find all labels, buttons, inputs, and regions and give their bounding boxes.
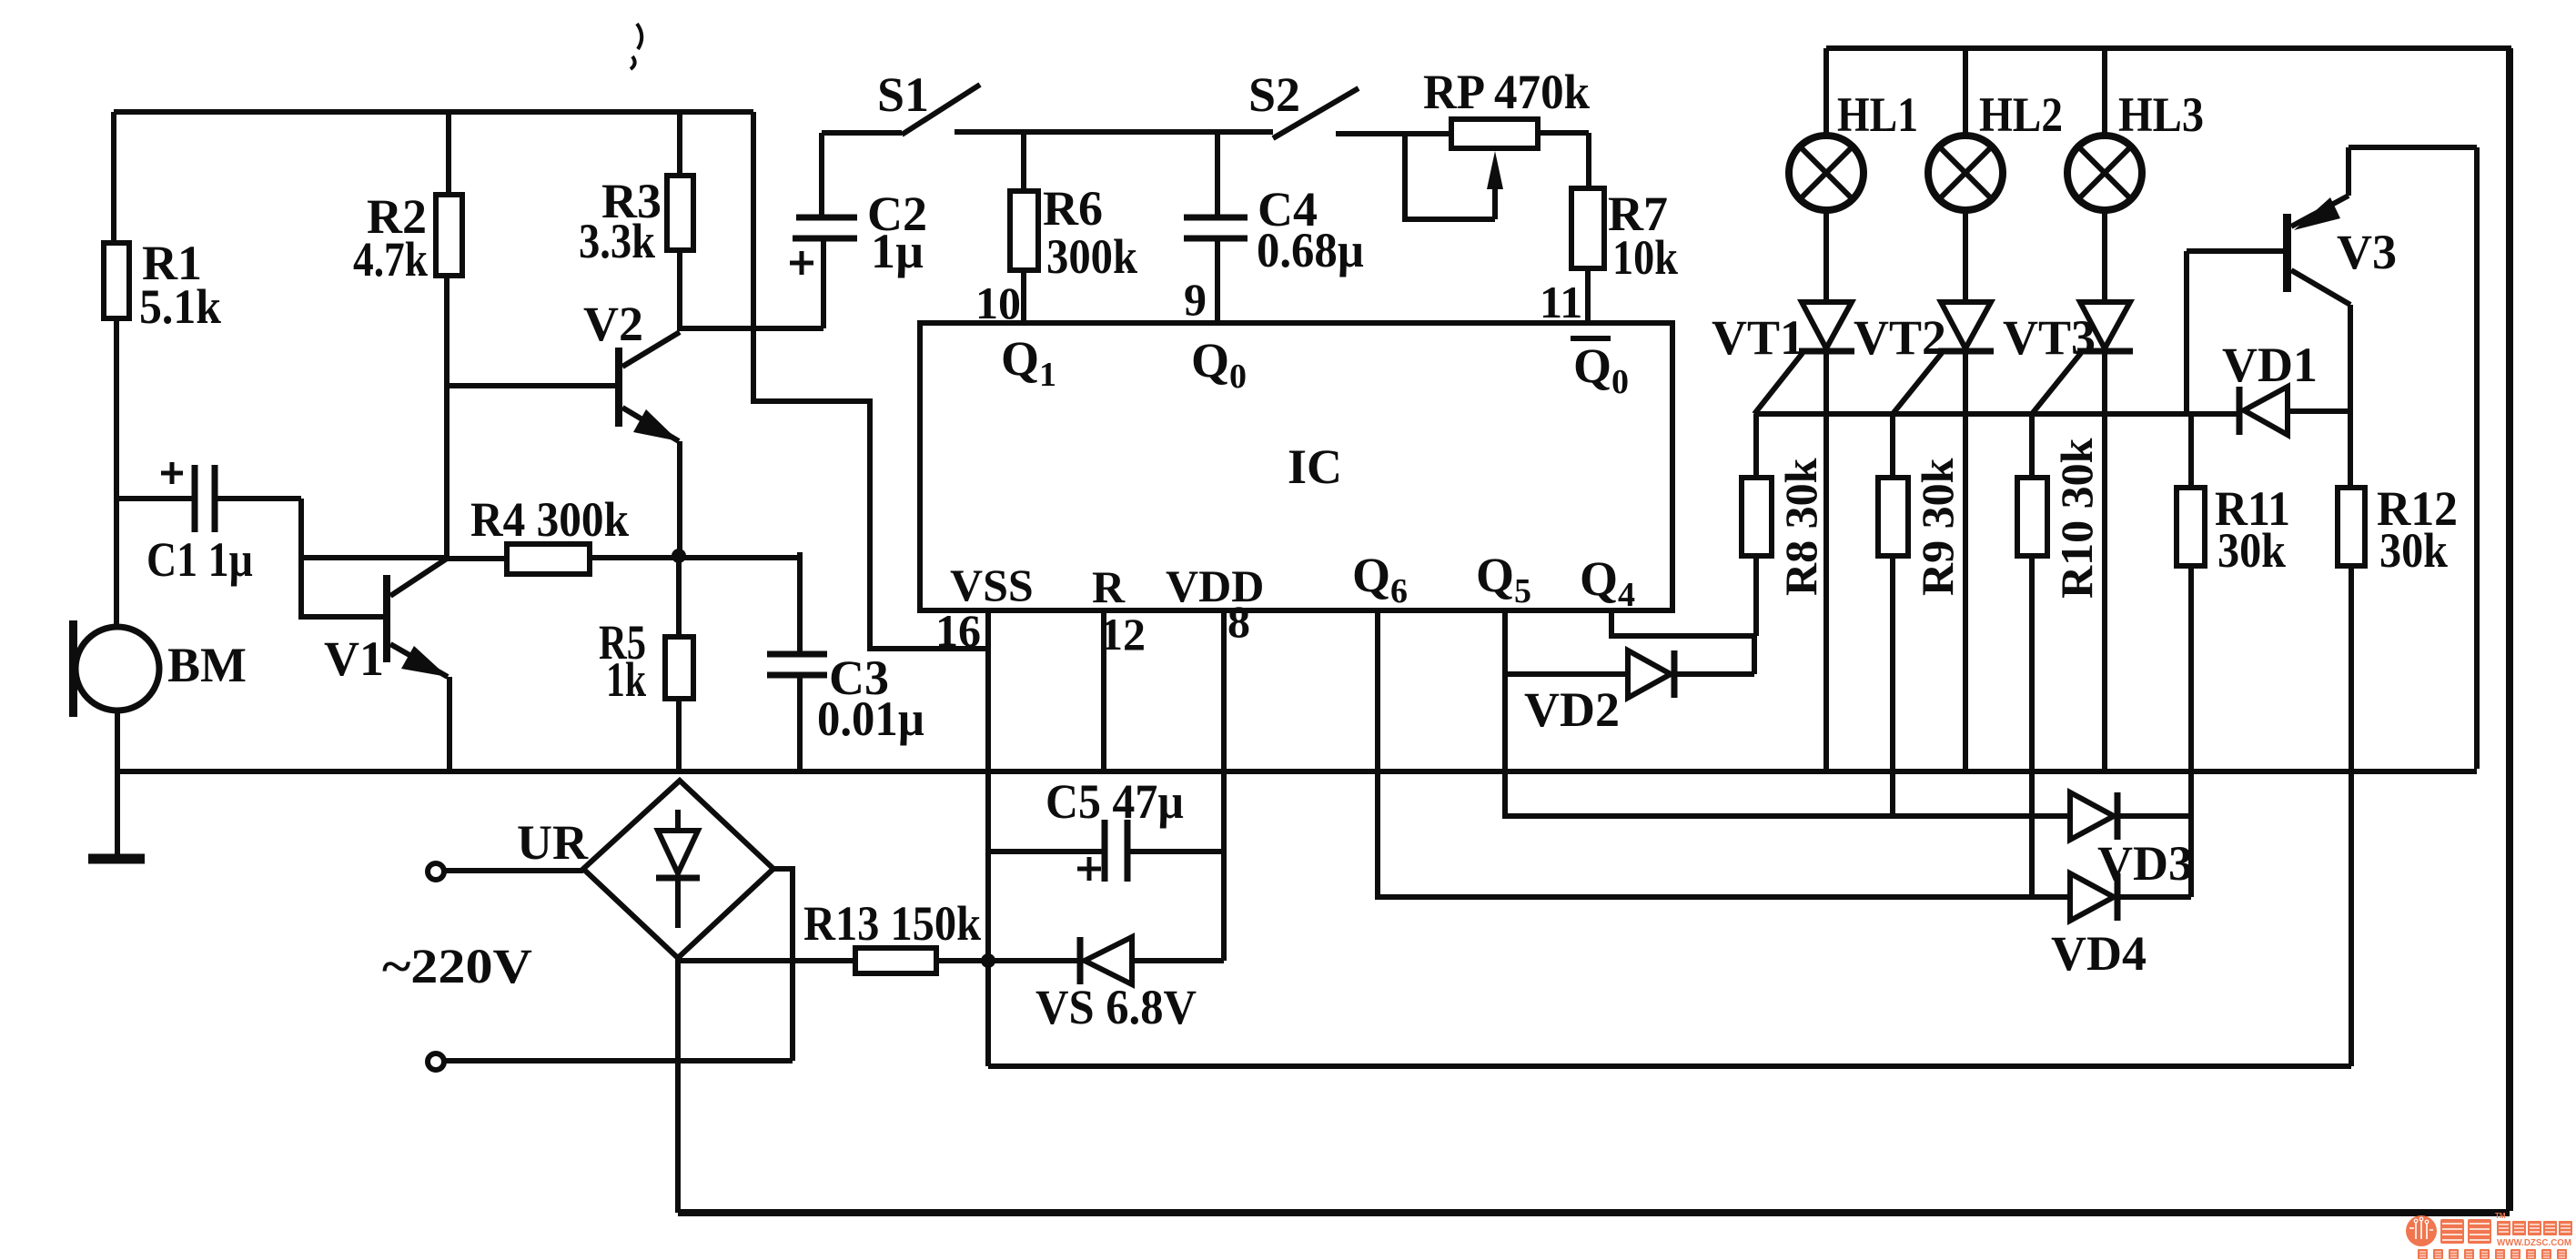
transistor V3 [2283,214,2291,292]
zener diode VS [1077,937,1084,984]
resistor R2 [446,112,451,195]
svg-text:R9 30k: R9 30k [1912,458,1963,596]
lamp HL3 [2102,48,2107,136]
diode VD3 [2070,792,2114,840]
wire VSS pin 16 [985,610,991,961]
svg-text:S1: S1 [877,67,929,122]
svg-text:VT1: VT1 [1712,310,1804,365]
switch S1 [822,130,902,136]
thyristor VT1 [1802,302,1852,348]
svg-text:VD2: VD2 [1524,682,1620,737]
watermark logo [2406,1212,2572,1259]
svg-text:R10 30k: R10 30k [2051,438,2102,599]
wire right border [2506,48,2513,1211]
svg-text:R: R [1092,561,1126,612]
diode VD1 [2244,387,2288,435]
svg-text:VT3: VT3 [2003,310,2096,365]
wire bottom rail [678,1209,2510,1216]
resistor R10 [2029,414,2035,478]
svg-text:R4 300k: R4 300k [470,492,629,547]
capacitor C5 [988,849,1105,854]
svg-text:V2: V2 [583,297,643,351]
resistor R9 [1890,414,1895,478]
wire top bus to VSS pin [753,112,988,649]
resistor R7 [1586,133,1591,188]
resistor R11 [2188,414,2194,488]
svg-text:RP 470k: RP 470k [1423,65,1590,119]
scan mark [631,24,641,69]
resistor R12 [2348,305,2353,488]
svg-text:R13 150k: R13 150k [803,896,981,951]
svg-text:IC: IC [1288,439,1342,494]
wire top right bus [1826,45,2511,51]
svg-text:UR: UR [517,815,589,870]
svg-text:S2: S2 [1248,67,1300,122]
wire top-left supply bus [114,109,753,115]
svg-text:10: 10 [975,277,1021,328]
microphone BM [76,627,159,711]
resistor R1 [111,112,116,243]
svg-text:1µ: 1µ [871,224,924,278]
svg-text:C5 47µ: C5 47µ [1046,774,1184,829]
bridge rectifier UR [583,781,773,958]
svg-text:VS 6.8V: VS 6.8V [1035,980,1197,1034]
svg-text:R8 30k: R8 30k [1775,458,1826,596]
wire gate line [1754,411,2239,417]
svg-text:3.3k: 3.3k [579,214,655,268]
svg-text:11: 11 [1540,277,1582,328]
svg-text:0.01µ: 0.01µ [817,691,924,746]
svg-text:HL1: HL1 [1837,87,1918,142]
svg-text:12: 12 [1100,609,1146,660]
ground [88,854,145,864]
svg-text:HL2: HL2 [1979,87,2063,142]
capacitor C1 [116,496,195,501]
resistor R13 [678,958,855,963]
svg-text:10k: 10k [1612,230,1678,285]
node VSS/R13/VS junction [981,953,995,968]
svg-text:VD4: VD4 [2051,926,2147,981]
wire BM to ground [115,711,120,856]
svg-text:TM: TM [2495,1212,2506,1220]
IC U1 box [920,323,1672,610]
terminal AC2 [428,1053,444,1070]
diode VD4 [2070,873,2114,921]
svg-text:30k: 30k [2379,523,2448,578]
svg-text:BM: BM [167,638,247,692]
svg-text:0.68µ: 0.68µ [1257,223,1364,277]
resistor R5 [676,556,682,637]
capacitor C4 [1215,132,1220,217]
wire V2 collector to C2 [677,326,823,331]
diode VD2 [1505,671,1628,677]
svg-text:VD3: VD3 [2097,836,2193,891]
resistor R4 [447,556,507,561]
svg-text:1k: 1k [606,652,646,707]
wire ground bus [116,769,2477,774]
svg-text:VSS: VSS [950,559,1034,610]
svg-text:4.7k: 4.7k [353,232,428,287]
terminal AC1 [428,863,444,880]
wire C1 to V1 base [301,499,447,617]
wire Q6 line [1378,610,2070,897]
wire R pin 12 [1101,610,1106,771]
wire V2 base [447,383,616,388]
svg-text:VD1: VD1 [2222,338,2318,392]
thyristor VT3 [2080,302,2130,348]
svg-text:~220V: ~220V [382,939,532,993]
wire bridge output down [675,958,681,1213]
thyristor VT2 [1941,302,1991,348]
svg-text:30k: 30k [2217,523,2286,578]
svg-text:VT2: VT2 [1854,310,1946,365]
svg-text:300k: 300k [1046,229,1137,284]
svg-text:9: 9 [1184,274,1207,325]
svg-text:HL3: HL3 [2118,87,2204,142]
lamp HL2 [1963,48,1968,136]
svg-text:R6: R6 [1043,181,1103,236]
lamp HL1 [1823,48,1829,136]
wire VDD pin 8 [1221,610,1227,961]
svg-text:V1: V1 [324,631,384,686]
wire negative rail to R12 [988,961,2351,1066]
capacitor C2 [819,133,824,217]
resistor R8 [1753,414,1759,478]
svg-text:V3: V3 [2337,225,2397,279]
transistor V2 [615,348,622,427]
potentiometer RP [1451,119,1538,148]
wire Q4 line [1611,610,1754,636]
resistor R6 [1021,132,1026,191]
svg-text:5.1k: 5.1k [139,279,221,334]
resistor R3 [677,112,682,176]
svg-text:8: 8 [1227,596,1250,647]
transistor V1 [383,575,390,662]
svg-text:WWW.DZSC.COM: WWW.DZSC.COM [2497,1238,2571,1248]
svg-text:C1 1µ: C1 1µ [146,532,253,587]
capacitor C3 [797,552,803,654]
wire Q5 line [1505,610,2070,816]
node R4/R5/V2 junction [672,549,686,563]
switch S2 [1273,88,1359,138]
svg-text:16: 16 [935,605,981,656]
